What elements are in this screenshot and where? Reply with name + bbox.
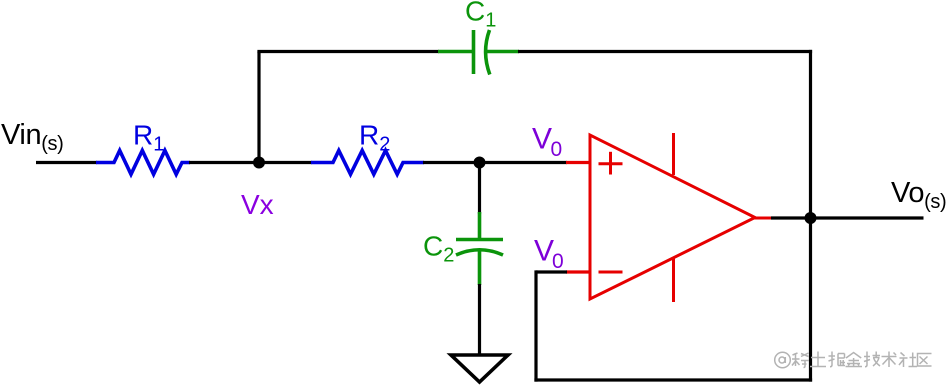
wire: output to Vo terminal: [811, 216, 924, 219]
wire: top rail right segment (C1 to right riser): [518, 50, 812, 53]
金: [846, 353, 863, 367]
positive supply rail: [672, 133, 675, 175]
watermark: [775, 352, 932, 368]
wire: top rail left segment (to C1): [257, 50, 439, 53]
ground: [451, 355, 508, 382]
掘: [829, 352, 846, 367]
wire: feedback stub from inverting input corner: [536, 270, 567, 273]
resistor R2: [311, 151, 424, 175]
output stub: [754, 217, 772, 220]
wire: input lead from Vin to R1: [36, 161, 97, 164]
wire: vertical riser from node Vx to top feedback rail: [257, 52, 260, 163]
wire: R1 to R2 through node Vx: [189, 161, 312, 164]
resistor R1: [96, 151, 190, 175]
wire: red stub into + input: [566, 161, 590, 164]
capacitor C2: [456, 212, 503, 285]
wire: red stub into - input: [566, 270, 590, 273]
技: [864, 352, 880, 367]
minus sign at - input: [599, 271, 623, 274]
wire: right vertical riser (top rail to feedback bottom): [809, 50, 812, 382]
wire: R2 to op-amp noninverting input through node V0: [423, 161, 567, 164]
svg-text:Vx: Vx: [241, 189, 274, 220]
社: [899, 353, 917, 368]
wire: feedback bottom rail: [534, 378, 812, 381]
wire: vertical drop from node V0 to C2: [478, 163, 481, 215]
node output (junction dot): [805, 212, 817, 224]
negative supply rail: [672, 258, 675, 303]
土: [810, 352, 826, 367]
wire: feedback left vertical: [534, 270, 537, 381]
node Vx (junction dot): [253, 157, 265, 169]
plus sign at + input: [599, 162, 623, 165]
node V0 (junction dot): [474, 157, 486, 169]
wire: C2 to ground: [478, 284, 481, 355]
区: [918, 354, 932, 367]
wire: op-amp output to output node: [771, 216, 811, 219]
op-amp U1: [590, 133, 772, 302]
术: [882, 352, 897, 368]
capacitor C1: [438, 30, 519, 75]
稀: [792, 353, 809, 368]
